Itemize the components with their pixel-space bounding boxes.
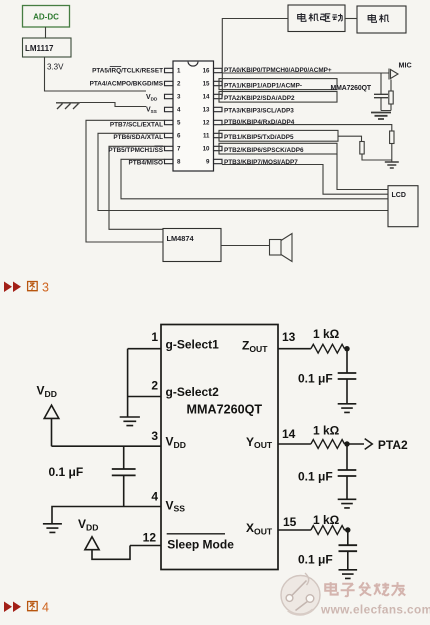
ground G4 under g-Select bbox=[120, 417, 140, 426]
supply VDD1 arrow bbox=[44, 405, 59, 418]
watermark text 电子发烧友 bbox=[325, 582, 405, 596]
wire pin4 VSS to ground bbox=[52, 507, 161, 524]
wire pin6 to LCD bbox=[98, 133, 388, 210]
accelerometer U2 MMA7260QT body bbox=[161, 325, 278, 570]
resistor R4 1k zigzag bbox=[311, 440, 345, 449]
speaker LS1 bbox=[270, 240, 282, 256]
ground G1 earth bbox=[56, 103, 80, 109]
watermark logo circle bbox=[281, 573, 320, 615]
wire pin11 box to resistor R1 bbox=[338, 136, 362, 141]
amplifier LM4874 box bbox=[163, 229, 221, 262]
resistor R3 1k zigzag bbox=[311, 344, 345, 353]
wire pin15 XOUT bbox=[278, 529, 311, 531]
node dot X bbox=[345, 527, 350, 532]
svg-text:4: 4 bbox=[42, 601, 49, 615]
capacitor C6 plates bbox=[338, 470, 357, 476]
resistor R5 1k zigzag bbox=[311, 526, 345, 535]
wire 3.3V rail to VDD pin3 bbox=[45, 57, 147, 91]
wire motor-driver to motor bbox=[345, 18, 357, 20]
ground G7 Y row bbox=[338, 499, 357, 508]
overline SS pin7 bbox=[155, 145, 164, 147]
wire pin13 ZOUT bbox=[278, 348, 311, 350]
resistor MIC bbox=[389, 91, 393, 104]
arrowhead PTA2 bbox=[365, 439, 373, 450]
node dot Z bbox=[344, 346, 349, 351]
caption marker fig3 arrows bbox=[4, 282, 21, 293]
text motor 电机 bbox=[368, 14, 389, 22]
wire pin16 to MIC node bbox=[222, 72, 389, 74]
svg-text:www.elecfans.com: www.elecfans.com bbox=[320, 603, 430, 617]
block AD-DC bbox=[23, 6, 70, 28]
svg-text:3: 3 bbox=[42, 281, 49, 295]
wire MIC branch down bbox=[381, 73, 391, 111]
box label PTB1 pin11 bbox=[219, 130, 338, 141]
pin stubs left bbox=[165, 68, 174, 163]
resistor R1 bbox=[360, 142, 364, 155]
node dot Y bbox=[344, 441, 349, 446]
wire pin1 g-Select1 bbox=[128, 348, 161, 350]
ground G6 Z row bbox=[338, 404, 357, 413]
caption text 图 4 bbox=[28, 602, 38, 611]
wire pin12 PTB0 to resistor R2 bbox=[222, 125, 392, 131]
wire R3 to cap C5 bbox=[345, 349, 348, 404]
wire AD-DC to LM1117 bbox=[45, 27, 47, 38]
wire VDD1 to pin3 bbox=[52, 418, 162, 446]
caption marker fig4 arrows bbox=[4, 602, 21, 613]
block motor-driver bbox=[288, 5, 345, 32]
capacitor C4 plates bbox=[112, 469, 136, 475]
wire motor-driver to PTA2 pin14 bbox=[222, 19, 288, 97]
wire pin14 YOUT bbox=[278, 443, 311, 445]
box label PTB2 pin10 bbox=[219, 143, 337, 154]
supply VDD2 arrow bbox=[85, 537, 99, 550]
wire pin9 to LCD bbox=[222, 165, 388, 195]
ground G2 bbox=[385, 162, 399, 168]
wire LM4874 to speaker bbox=[221, 245, 270, 247]
LCD module box bbox=[388, 186, 418, 227]
pin stubs right bbox=[214, 68, 223, 163]
overline IRQ bbox=[110, 66, 121, 68]
ground G5 under VSS bbox=[43, 524, 62, 533]
capacitor C4 0.1uF vertical bbox=[123, 446, 125, 506]
MCU notch bbox=[188, 62, 198, 67]
capacitor C5 plates bbox=[338, 373, 357, 379]
wire pin5 to LM4874 bbox=[86, 120, 165, 242]
ground G3 under MIC bbox=[371, 113, 391, 120]
box label PTA1 pin15 bbox=[219, 79, 337, 90]
regulator LM1117 bbox=[23, 38, 72, 57]
wire pin1-pin2 tie to ground bbox=[127, 349, 129, 417]
caption text 图 3 bbox=[28, 282, 38, 291]
wire VDD2 to pin12 Sleep Mode bbox=[92, 546, 161, 560]
overline Sleep Mode bbox=[167, 533, 225, 535]
wire VSS pin4 to ground bbox=[80, 103, 146, 107]
wire pin10 to LCD bbox=[337, 154, 388, 190]
text motor-driver 电机驱动 bbox=[298, 13, 343, 21]
ground G8 X row bbox=[339, 570, 358, 579]
resistor R2 bbox=[390, 131, 394, 144]
wire pin2 g-Select2 bbox=[128, 396, 161, 398]
block motor bbox=[357, 6, 406, 33]
MIC symbol bbox=[389, 69, 398, 80]
wire pin8 to LCD bbox=[121, 159, 388, 199]
wire node Y to cap C6 bbox=[346, 444, 348, 499]
wire pin7 to LM4874 bbox=[109, 146, 165, 229]
wire R2 bottom to ground bbox=[391, 144, 393, 162]
wire R4 to arrow PTA2 bbox=[345, 443, 365, 445]
wire R1 bottom to ground node bbox=[362, 154, 392, 160]
wire node X to cap C7 bbox=[345, 530, 348, 569]
capacitor C7 plates bbox=[339, 545, 358, 551]
box label PTA2 pin14 bbox=[219, 92, 337, 103]
MCU U1 body bbox=[173, 61, 214, 171]
capacitor MIC bbox=[374, 94, 388, 97]
